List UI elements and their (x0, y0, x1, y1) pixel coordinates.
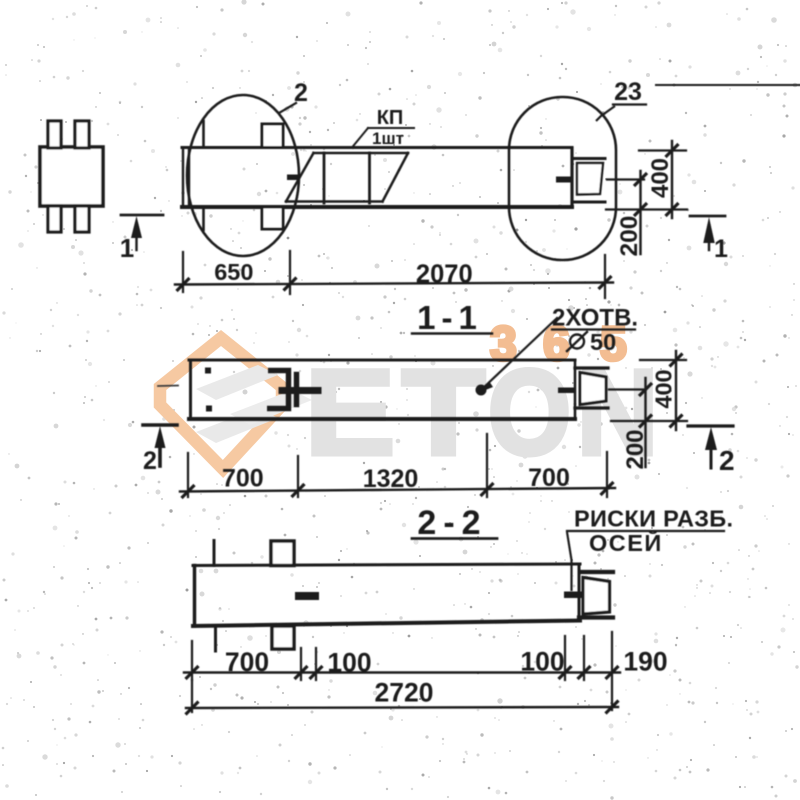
section 1-1 dims 700/1320/700 (180, 488, 615, 492)
plan beam outline (182, 146, 572, 149)
hole with leader (476, 385, 487, 396)
svg-text:РИСКИ РАЗБ.: РИСКИ РАЗБ. (574, 506, 733, 532)
plan centre dash right (556, 177, 573, 183)
svg-text:2: 2 (143, 447, 157, 475)
svg-text:190: 190 (623, 647, 667, 677)
plan detail ellipse 2 (187, 95, 299, 256)
section 1-1 centre dash right (558, 388, 574, 394)
column end view: body square (40, 147, 103, 206)
svg-text:50: 50 (590, 329, 616, 355)
section mark 2 (left) (143, 423, 177, 427)
svg-text:700: 700 (225, 647, 269, 677)
svg-text:100: 100 (327, 648, 371, 678)
section 2-2 stub rectangles (271, 541, 294, 566)
top right horizontal line (656, 84, 800, 86)
section 1-1 anchor dots (205, 368, 211, 374)
section 1-1 dim 200 (644, 378, 646, 467)
svg-text:2ХОТВ.: 2ХОТВ. (552, 305, 638, 332)
plan stub rectangles (262, 124, 283, 148)
small centre tick left (158, 385, 178, 388)
svg-text:T: T (402, 344, 485, 480)
svg-text:1-1: 1-1 (417, 299, 483, 336)
watermark slabs (196, 365, 278, 400)
plan dims 650 / 2070 (175, 283, 613, 285)
svg-text:ОСЕЙ: ОСЕЙ (589, 529, 663, 556)
plan thin stub lines (202, 121, 205, 148)
svg-text:2-2: 2-2 (417, 504, 487, 542)
svg-text:100: 100 (520, 647, 564, 677)
section mark 2 (right) (688, 424, 733, 427)
svg-text:1: 1 (714, 235, 728, 263)
plan centreline extension (607, 178, 644, 180)
watermark text ETON (305, 344, 658, 480)
section 1-1 dim 400 (640, 359, 686, 361)
plan dim 200 (639, 171, 641, 254)
plan right console (572, 157, 605, 160)
svg-text:2: 2 (719, 445, 735, 476)
section mark 1 (left) (121, 214, 163, 217)
lifting loop cross (294, 375, 300, 405)
column end view: stub tabs (48, 121, 61, 148)
watermark text 365 (490, 318, 627, 371)
section 2-2 overall dim 2720 (186, 707, 618, 708)
svg-text:3: 3 (490, 318, 517, 371)
svg-text:200: 200 (622, 429, 649, 469)
svg-text:650: 650 (214, 259, 253, 285)
plan centre dash left (287, 175, 299, 181)
embedded plate KP parallelogram (314, 152, 409, 155)
svg-text:23: 23 (614, 78, 642, 106)
plan dim 400 (639, 149, 686, 151)
section 2-2 centre dash (295, 592, 319, 600)
svg-text:2720: 2720 (375, 678, 434, 708)
section 2-2 beam outline (193, 564, 580, 566)
plan detail stadium 23 (509, 97, 616, 260)
section 2-2 dims row 1 (184, 671, 620, 673)
section 2-2 right console (580, 570, 613, 574)
svg-text:700: 700 (222, 465, 264, 493)
watermark hexagon (160, 338, 282, 469)
svg-text:2070: 2070 (416, 261, 473, 289)
section 1-1 right console (575, 366, 608, 369)
section 2-2 thin stub lines (213, 541, 216, 566)
svg-text:400: 400 (651, 369, 677, 408)
svg-text:700: 700 (528, 464, 570, 492)
svg-text:1: 1 (120, 233, 134, 263)
svg-text:200: 200 (616, 216, 643, 257)
svg-text:1320: 1320 (363, 465, 419, 493)
section 1-1 beam outline (189, 359, 575, 362)
section mark 1 (right) (690, 215, 725, 218)
axis mark dash (564, 592, 583, 599)
svg-text:E: E (305, 344, 395, 480)
svg-text:КП: КП (377, 107, 404, 129)
svg-text:1шт: 1шт (372, 129, 404, 148)
svg-text:400: 400 (647, 158, 674, 198)
lifting loop bracket (267, 371, 289, 409)
